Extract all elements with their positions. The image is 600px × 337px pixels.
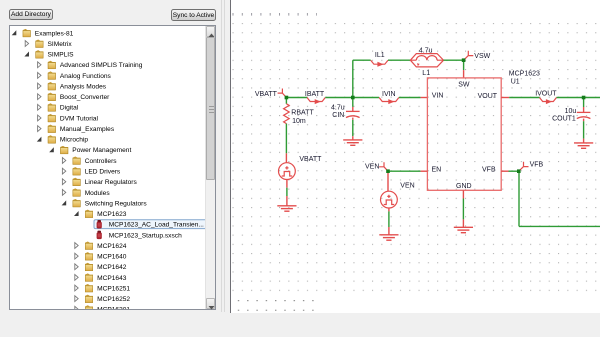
wire VEN node to EN pin (388, 170, 421, 172)
wire VIN node up to inductor rail (352, 60, 354, 97)
pin SW stub (463, 70, 465, 78)
wire corner to IL1 probe (353, 59, 371, 61)
svg-text:Linear Regulators: Linear Regulators (85, 179, 138, 186)
node VIN junction (351, 96, 355, 100)
svg-text:L1: L1 (422, 70, 430, 77)
ground below VEN (379, 235, 398, 240)
svg-text:Controllers: Controllers (85, 158, 118, 165)
svg-text:MCP1643: MCP1643 (97, 275, 127, 282)
wire IL1 to L1 (388, 59, 410, 61)
svg-text:VEN: VEN (400, 182, 414, 189)
svg-text:SW: SW (458, 82, 470, 89)
svg-text:Modules: Modules (85, 190, 111, 197)
svg-text:RBATT: RBATT (291, 110, 314, 117)
ground stub COUT1 (583, 139, 585, 143)
pin VBATT source top stub (285, 153, 287, 162)
svg-text:MCP16301: MCP16301 (97, 307, 130, 310)
ground below GND pin (454, 227, 473, 232)
svg-text:MCP1623_AC_Load_Transien...: MCP1623_AC_Load_Transien... (109, 222, 204, 229)
svg-text:10m: 10m (292, 118, 306, 125)
current probe IVIN (379, 98, 399, 102)
wire SW node down (463, 60, 465, 70)
resistor RBATT (284, 104, 290, 124)
svg-text:MCP1624: MCP1624 (97, 243, 127, 250)
wire VFB node down (518, 171, 520, 226)
op-amp/IC U1 MCP1623 box (427, 78, 501, 190)
pin VFB stub (501, 170, 508, 172)
svg-text:Digital: Digital (60, 105, 79, 112)
bottom partial dot rows (236, 300, 317, 311)
svg-text:MCP16251: MCP16251 (97, 285, 130, 292)
current probe IL1 (371, 60, 388, 64)
svg-text:VBATT: VBATT (299, 156, 322, 163)
svg-text:Switching Regulators: Switching Regulators (85, 200, 148, 207)
capacitor COUT1 (577, 112, 591, 118)
pin COUT1 bottom stub (583, 119, 585, 122)
svg-text:SIMPLIS: SIMPLIS (48, 52, 75, 59)
capacitor CIN (346, 111, 360, 117)
wire IVOUT to right edge (557, 97, 600, 99)
wire VBATT node to IBATT probe (286, 97, 307, 99)
svg-text:EN: EN (432, 166, 442, 173)
svg-text:CIN: CIN (332, 112, 344, 119)
svg-text:IVOUT: IVOUT (535, 91, 557, 98)
pin VEN source top stub (387, 171, 389, 191)
svg-text:VOUT: VOUT (478, 93, 498, 100)
svg-text:Analysis Modes: Analysis Modes (60, 83, 107, 90)
node VEN junction (386, 169, 390, 173)
svg-text:VSW: VSW (474, 53, 490, 60)
svg-text:Examples-81: Examples-81 (35, 30, 74, 37)
svg-text:COUT1: COUT1 (552, 116, 576, 123)
wire VOUT to IVOUT probe (509, 97, 539, 99)
top partial dash row (231, 13, 317, 16)
svg-text:MCP1623: MCP1623 (509, 71, 540, 78)
current probe IBATT (307, 98, 325, 102)
svg-text:LED Drivers: LED Drivers (85, 168, 121, 175)
svg-text:MCP1623: MCP1623 (97, 211, 127, 218)
terminal probe VBATT (278, 89, 287, 98)
wire VBATT node down to RBATT (285, 98, 287, 104)
wire VEN source to ground (388, 211, 390, 227)
pin VIN stub (421, 97, 428, 99)
schematic window (230, 0, 600, 313)
terminal probe VFB (519, 162, 529, 171)
wire COUT1 to ground (583, 121, 585, 138)
wire L1 to SW node (444, 59, 464, 61)
svg-text:MCP1623_Startup.sxsch: MCP1623_Startup.sxsch (109, 232, 182, 239)
svg-text:Microchip: Microchip (60, 137, 89, 144)
svg-text:SIMetrix: SIMetrix (48, 41, 73, 48)
svg-text:VFB: VFB (482, 166, 496, 173)
ground stub GND (462, 219, 464, 227)
svg-text:U1: U1 (511, 79, 520, 86)
wire RBATT to VBATT source (285, 124, 287, 154)
svg-text:MCP1640: MCP1640 (97, 254, 127, 261)
voltage source VBATT (pulse) (279, 163, 296, 180)
svg-text:Advanced SIMPLIS Training: Advanced SIMPLIS Training (60, 62, 143, 69)
node SW junction (462, 58, 466, 62)
pin CIN top stub (352, 107, 354, 112)
pin VOUT stub (501, 97, 509, 99)
terminal probe VSW (464, 51, 474, 60)
svg-text:VIN: VIN (432, 92, 444, 99)
svg-text:VFB: VFB (530, 162, 544, 169)
svg-text:Analog Functions: Analog Functions (60, 73, 112, 80)
svg-text:GND: GND (456, 183, 472, 190)
splitter lines (221, 0, 222, 312)
ground below VBATT (277, 206, 296, 211)
wire feedback rail to right edge (519, 225, 600, 227)
left toolbar buttons (9, 9, 53, 20)
wire CIN to ground (352, 120, 354, 136)
node VFB junction (517, 169, 521, 173)
svg-text:IBATT: IBATT (305, 91, 325, 98)
svg-text:4.7u: 4.7u (331, 105, 345, 112)
ground stub VEN (388, 227, 390, 235)
svg-text:Boost_Converter: Boost_Converter (60, 94, 110, 101)
voltage source VEN (pulse) (381, 191, 398, 208)
svg-text:Power Management: Power Management (72, 147, 131, 154)
inductor L1 (410, 54, 443, 67)
pin EN stub (421, 170, 428, 172)
ground stub VBATT (286, 196, 288, 206)
svg-text:VEN: VEN (365, 164, 379, 171)
svg-text:Manual_Examples: Manual_Examples (60, 126, 115, 133)
wire VOUT node down to COUT1 (583, 98, 585, 108)
ground stub CIN (352, 136, 354, 140)
node VOUT junction (582, 96, 586, 100)
wire GND pin to ground (462, 199, 464, 220)
ground below CIN (343, 140, 362, 145)
scrollbar (205, 26, 216, 310)
pin VBATT source bottom stub (286, 180, 288, 188)
svg-text:IVIN: IVIN (382, 91, 396, 98)
ground below COUT1 (574, 143, 593, 148)
pin CIN bottom stub (352, 118, 354, 120)
current probe IVOUT (540, 98, 557, 102)
wire VIN node down to CIN (352, 98, 354, 107)
wire IBATT to VIN node (325, 97, 353, 99)
grid dots (231, 22, 600, 294)
terminal probe VEN (379, 162, 388, 171)
wire VIN node to IVIN probe (353, 97, 379, 99)
wire IVIN to VIN pin (399, 97, 421, 99)
svg-text:VBATT: VBATT (255, 91, 278, 98)
pin COUT1 top stub (583, 107, 585, 112)
svg-text:10u: 10u (565, 108, 577, 115)
wire VFB pin to VFB node (509, 170, 519, 172)
node VBATT junction (285, 96, 289, 100)
svg-text:MCP1642: MCP1642 (97, 264, 127, 271)
pin VEN source bottom stub (388, 208, 390, 211)
svg-text:MCP16252: MCP16252 (97, 296, 130, 303)
svg-text:IL1: IL1 (375, 52, 385, 59)
svg-text:DVM Tutorial: DVM Tutorial (60, 115, 99, 122)
pin GND stub (462, 190, 464, 198)
wire VBATT source to ground (286, 188, 288, 196)
tree panel (9, 25, 216, 310)
svg-text:4.7u: 4.7u (419, 47, 433, 54)
